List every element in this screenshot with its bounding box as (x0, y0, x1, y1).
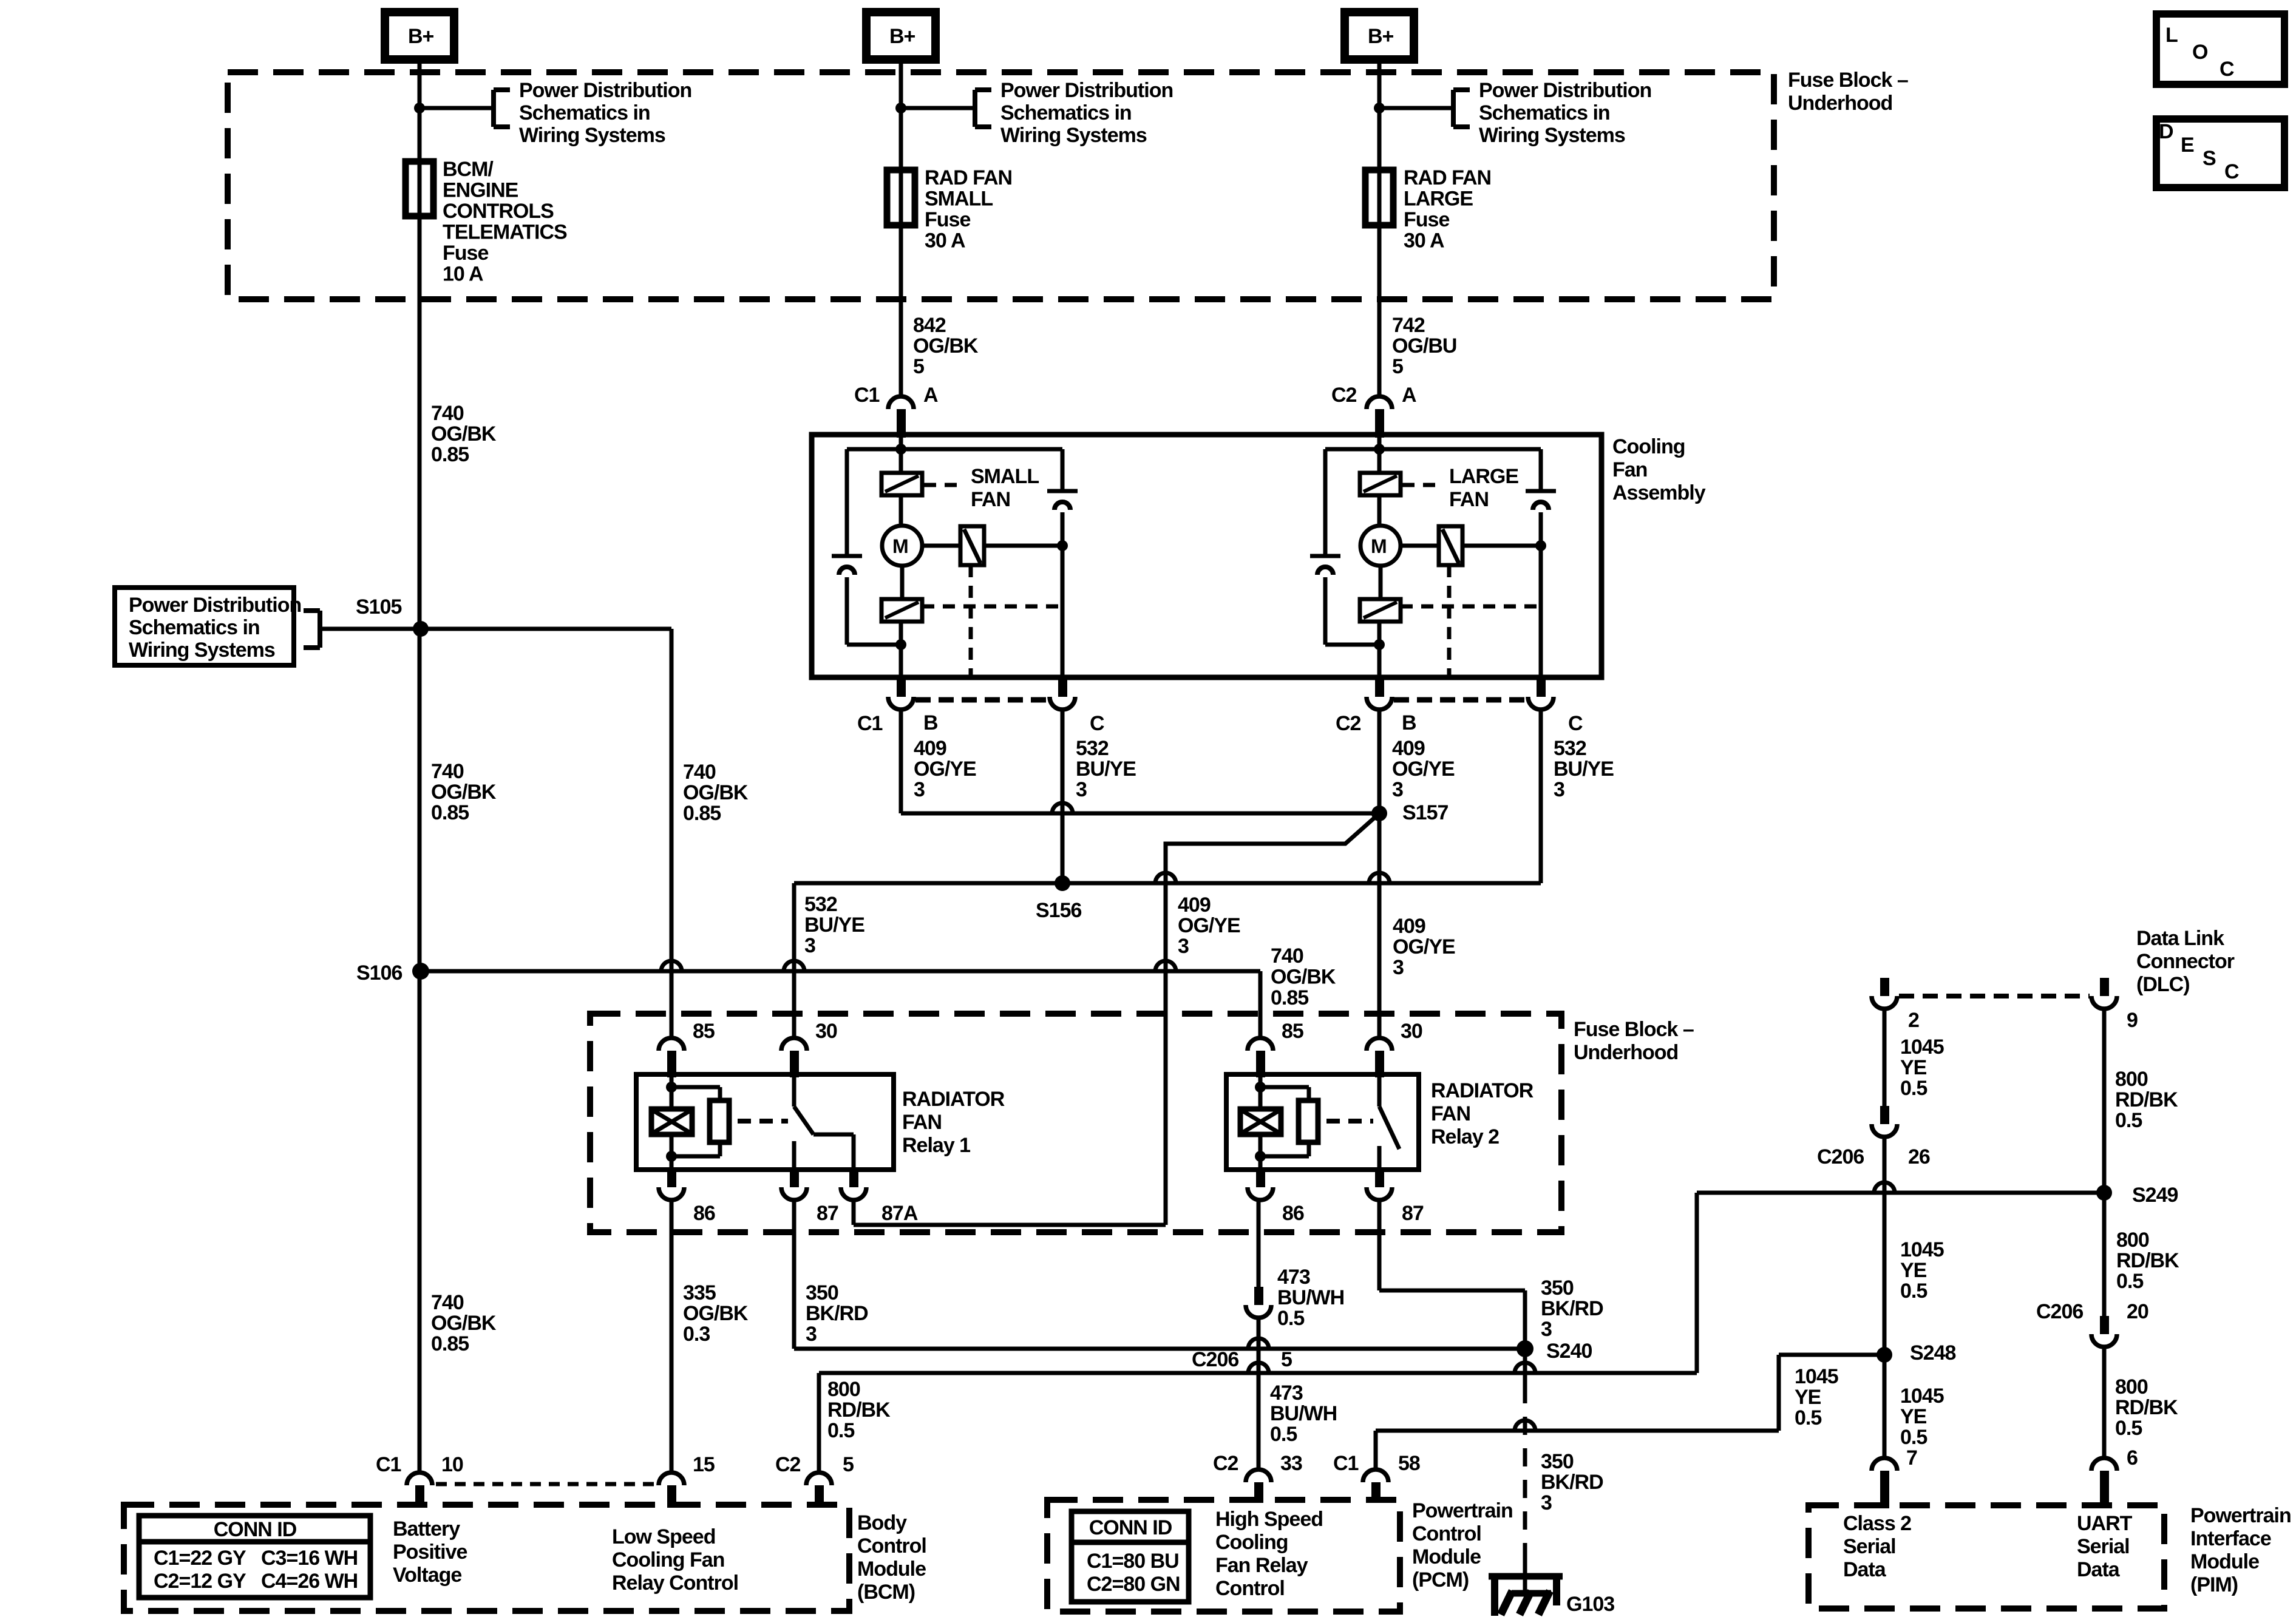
svg-text:Fuse Block –: Fuse Block – (1574, 1018, 1694, 1041)
svg-text:1045: 1045 (1900, 1036, 1944, 1059)
svg-text:S106: S106 (356, 961, 402, 985)
svg-text:C1: C1 (376, 1453, 401, 1476)
svg-text:OG/BK: OG/BK (913, 334, 979, 358)
svg-text:M: M (1371, 535, 1387, 557)
svg-text:B+: B+ (1368, 25, 1394, 48)
svg-text:UART: UART (2077, 1512, 2133, 1535)
svg-text:842: 842 (913, 314, 946, 337)
svg-text:M: M (892, 535, 908, 557)
svg-text:0.85: 0.85 (683, 802, 721, 825)
svg-text:CONN ID: CONN ID (1089, 1516, 1172, 1539)
svg-text:Connector: Connector (2136, 950, 2235, 973)
svg-text:OG/BK: OG/BK (1271, 966, 1336, 989)
svg-text:Fan Relay: Fan Relay (1215, 1554, 1308, 1577)
svg-text:0.5: 0.5 (2116, 1270, 2143, 1293)
svg-text:C2: C2 (775, 1453, 801, 1476)
svg-text:CONN ID: CONN ID (214, 1518, 297, 1541)
svg-text:C1: C1 (857, 712, 883, 735)
svg-text:RD/BK: RD/BK (2116, 1249, 2179, 1272)
svg-text:RAD FAN: RAD FAN (925, 166, 1012, 189)
svg-text:BU/YE: BU/YE (1554, 758, 1614, 781)
svg-text:409: 409 (1178, 893, 1211, 917)
svg-text:(PIM): (PIM) (2190, 1573, 2238, 1596)
svg-text:RD/BK: RD/BK (827, 1398, 891, 1422)
svg-text:3: 3 (914, 778, 925, 801)
svg-text:85: 85 (1282, 1020, 1303, 1043)
svg-text:BU/WH: BU/WH (1277, 1286, 1344, 1309)
svg-text:0.5: 0.5 (827, 1419, 854, 1442)
svg-text:740: 740 (1271, 944, 1303, 968)
svg-text:B: B (1402, 711, 1416, 734)
svg-text:742: 742 (1392, 314, 1425, 337)
svg-text:409: 409 (1392, 737, 1425, 760)
svg-text:C2=12 GY: C2=12 GY (154, 1570, 246, 1593)
svg-text:OG/BU: OG/BU (1392, 334, 1456, 358)
svg-text:FAN: FAN (1431, 1102, 1470, 1125)
svg-text:BK/RD: BK/RD (1541, 1471, 1603, 1494)
svg-text:85: 85 (693, 1020, 715, 1043)
svg-text:S105: S105 (356, 595, 401, 619)
svg-text:87: 87 (817, 1202, 838, 1225)
svg-text:OG/BK: OG/BK (431, 422, 497, 446)
svg-text:Data Link: Data Link (2136, 927, 2224, 950)
svg-text:Data: Data (2077, 1558, 2121, 1581)
svg-text:(BCM): (BCM) (857, 1581, 915, 1604)
svg-text:30 A: 30 A (1404, 229, 1444, 253)
svg-text:S240: S240 (1546, 1340, 1592, 1363)
svg-text:350: 350 (1541, 1450, 1574, 1473)
svg-text:9: 9 (2127, 1009, 2138, 1032)
svg-text:0.5: 0.5 (2115, 1417, 2142, 1440)
svg-text:RADIATOR: RADIATOR (902, 1088, 1005, 1111)
svg-text:Underhood: Underhood (1788, 92, 1892, 115)
svg-text:Wiring Systems: Wiring Systems (1000, 124, 1147, 147)
svg-text:3: 3 (1178, 935, 1189, 958)
svg-text:TELEMATICS: TELEMATICS (443, 221, 567, 244)
svg-text:RAD FAN: RAD FAN (1404, 166, 1491, 189)
svg-text:33: 33 (1280, 1452, 1302, 1475)
svg-text:0.5: 0.5 (2115, 1109, 2142, 1132)
svg-text:409: 409 (1393, 915, 1425, 938)
svg-text:C2=80 GN: C2=80 GN (1087, 1573, 1180, 1596)
svg-text:(DLC): (DLC) (2136, 973, 2190, 996)
svg-text:Assembly: Assembly (1612, 481, 1706, 504)
svg-text:Cooling: Cooling (1612, 435, 1685, 458)
svg-text:350: 350 (806, 1281, 838, 1304)
svg-text:10 A: 10 A (443, 263, 483, 286)
svg-text:BK/RD: BK/RD (1541, 1297, 1603, 1320)
svg-text:B+: B+ (889, 25, 915, 48)
svg-text:C1=22 GY: C1=22 GY (154, 1547, 246, 1570)
svg-text:S157: S157 (1402, 801, 1448, 824)
svg-text:800: 800 (2116, 1229, 2149, 1252)
svg-text:C2: C2 (1213, 1452, 1238, 1475)
svg-text:Control: Control (1412, 1522, 1481, 1545)
svg-text:BU/WH: BU/WH (1270, 1402, 1337, 1425)
svg-text:Underhood: Underhood (1574, 1041, 1678, 1064)
svg-text:3: 3 (804, 934, 815, 957)
svg-text:3: 3 (1554, 778, 1564, 801)
svg-text:FAN: FAN (971, 488, 1010, 511)
svg-text:350: 350 (1541, 1276, 1574, 1300)
svg-text:1045: 1045 (1795, 1365, 1838, 1388)
svg-text:C: C (1090, 712, 1104, 735)
svg-text:Fuse: Fuse (1404, 208, 1449, 231)
svg-text:Fuse Block –: Fuse Block – (1788, 69, 1908, 92)
svg-text:3: 3 (1076, 778, 1087, 801)
svg-text:1045: 1045 (1900, 1385, 1944, 1408)
svg-text:L: L (2165, 24, 2178, 47)
svg-text:Cooling: Cooling (1215, 1531, 1288, 1554)
svg-text:Class 2: Class 2 (1843, 1512, 1911, 1535)
svg-text:Wiring Systems: Wiring Systems (1479, 124, 1625, 147)
svg-text:0.5: 0.5 (1900, 1077, 1927, 1100)
svg-text:0.5: 0.5 (1900, 1426, 1927, 1449)
svg-text:1045: 1045 (1900, 1238, 1944, 1261)
svg-text:SMALL: SMALL (925, 188, 993, 211)
svg-text:C: C (2220, 58, 2234, 81)
svg-text:6: 6 (2127, 1446, 2138, 1470)
svg-text:Body: Body (857, 1511, 907, 1534)
svg-text:473: 473 (1270, 1381, 1303, 1405)
svg-text:Fuse: Fuse (443, 242, 488, 265)
svg-text:Battery: Battery (393, 1517, 460, 1541)
svg-text:5: 5 (1392, 355, 1403, 378)
svg-text:Wiring Systems: Wiring Systems (519, 124, 665, 147)
svg-text:Wiring Systems: Wiring Systems (129, 639, 275, 662)
svg-text:0.5: 0.5 (1900, 1280, 1927, 1303)
svg-text:BK/RD: BK/RD (806, 1302, 868, 1325)
svg-text:Positive: Positive (393, 1541, 467, 1564)
svg-text:3: 3 (806, 1323, 817, 1346)
svg-text:Cooling Fan: Cooling Fan (612, 1548, 724, 1571)
svg-text:S249: S249 (2132, 1184, 2178, 1207)
svg-text:Voltage: Voltage (393, 1564, 461, 1587)
svg-text:30: 30 (1401, 1020, 1422, 1043)
svg-text:58: 58 (1398, 1452, 1420, 1475)
svg-text:5: 5 (843, 1453, 854, 1476)
svg-text:C2: C2 (1331, 384, 1357, 407)
svg-text:Interface: Interface (2190, 1527, 2271, 1550)
svg-text:532: 532 (804, 893, 837, 916)
svg-text:OG/YE: OG/YE (1393, 935, 1455, 958)
svg-text:30: 30 (815, 1020, 837, 1043)
svg-text:FAN: FAN (902, 1111, 942, 1134)
svg-text:A: A (923, 384, 938, 407)
svg-text:0.5: 0.5 (1270, 1423, 1297, 1446)
svg-text:740: 740 (431, 1291, 464, 1314)
svg-text:2: 2 (1908, 1009, 1919, 1032)
svg-text:26: 26 (1908, 1145, 1930, 1168)
svg-text:(PCM): (PCM) (1412, 1568, 1469, 1592)
svg-text:0.85: 0.85 (1271, 986, 1308, 1009)
svg-text:C1: C1 (1333, 1452, 1359, 1475)
svg-text:Module: Module (1412, 1545, 1481, 1568)
svg-text:3: 3 (1541, 1318, 1552, 1341)
svg-text:3: 3 (1393, 956, 1404, 979)
svg-text:740: 740 (431, 402, 464, 425)
svg-text:Power Distribution: Power Distribution (519, 79, 691, 102)
svg-text:High Speed: High Speed (1215, 1508, 1323, 1531)
svg-text:800: 800 (827, 1378, 860, 1401)
svg-text:C1=80 BU: C1=80 BU (1087, 1550, 1179, 1573)
svg-text:0.3: 0.3 (683, 1323, 710, 1346)
svg-text:86: 86 (1282, 1202, 1304, 1225)
svg-text:C2: C2 (1336, 712, 1361, 735)
svg-text:OG/BK: OG/BK (431, 1312, 497, 1335)
svg-text:87: 87 (1402, 1202, 1424, 1225)
svg-text:OG/YE: OG/YE (914, 758, 976, 781)
svg-text:OG/BK: OG/BK (683, 1302, 749, 1325)
svg-text:S248: S248 (1910, 1341, 1955, 1364)
svg-text:0.85: 0.85 (431, 443, 469, 466)
svg-text:800: 800 (2115, 1068, 2148, 1091)
svg-text:Serial: Serial (1843, 1535, 1896, 1558)
svg-text:740: 740 (431, 760, 464, 783)
svg-text:86: 86 (693, 1202, 715, 1225)
svg-text:A: A (1402, 384, 1416, 407)
svg-text:ENGINE: ENGINE (443, 179, 518, 202)
svg-text:BCM/: BCM/ (443, 158, 494, 181)
svg-text:BU/YE: BU/YE (1076, 758, 1136, 781)
svg-text:473: 473 (1277, 1266, 1310, 1289)
svg-text:0.85: 0.85 (431, 801, 469, 824)
svg-text:0.5: 0.5 (1795, 1406, 1821, 1429)
svg-text:RD/BK: RD/BK (2115, 1396, 2178, 1419)
svg-text:30 A: 30 A (925, 229, 965, 253)
svg-text:Control: Control (1215, 1577, 1285, 1600)
svg-text:S156: S156 (1036, 899, 1081, 922)
svg-text:Schematics in: Schematics in (519, 101, 650, 124)
svg-text:Fan: Fan (1612, 458, 1647, 481)
svg-text:OG/BK: OG/BK (431, 781, 497, 804)
svg-text:C: C (1568, 712, 1583, 735)
svg-text:FAN: FAN (1449, 488, 1489, 511)
svg-text:LARGE: LARGE (1404, 188, 1473, 211)
svg-text:C206: C206 (1817, 1145, 1864, 1168)
svg-text:800: 800 (2115, 1375, 2148, 1398)
svg-text:OG/BK: OG/BK (683, 781, 749, 804)
svg-text:3: 3 (1541, 1491, 1552, 1514)
svg-text:Relay 1: Relay 1 (902, 1134, 970, 1157)
svg-text:D: D (2159, 120, 2173, 143)
svg-text:OG/YE: OG/YE (1178, 914, 1240, 937)
svg-text:5: 5 (1281, 1348, 1292, 1371)
svg-text:C1: C1 (854, 384, 880, 407)
svg-text:Relay 2: Relay 2 (1431, 1125, 1499, 1148)
svg-text:Powertrain: Powertrain (2190, 1504, 2291, 1527)
svg-text:Power Distribution: Power Distribution (129, 594, 301, 617)
svg-text:B+: B+ (408, 25, 434, 48)
svg-text:7: 7 (1906, 1446, 1917, 1470)
svg-text:3: 3 (1392, 778, 1403, 801)
svg-text:532: 532 (1076, 737, 1109, 760)
svg-text:0.5: 0.5 (1277, 1307, 1304, 1330)
svg-text:Powertrain: Powertrain (1412, 1499, 1513, 1522)
svg-text:G103: G103 (1566, 1593, 1614, 1616)
svg-text:BU/YE: BU/YE (804, 914, 864, 937)
svg-text:S: S (2203, 147, 2216, 170)
svg-text:Schematics in: Schematics in (129, 616, 260, 639)
svg-text:YE: YE (1900, 1056, 1927, 1079)
svg-text:CONTROLS: CONTROLS (443, 200, 554, 223)
svg-text:Relay Control: Relay Control (612, 1571, 738, 1595)
svg-text:C206: C206 (1192, 1348, 1238, 1371)
svg-text:RD/BK: RD/BK (2115, 1088, 2178, 1111)
svg-text:Power Distribution: Power Distribution (1000, 79, 1173, 102)
svg-text:532: 532 (1554, 737, 1586, 760)
svg-text:Control: Control (857, 1534, 926, 1558)
svg-text:Low Speed: Low Speed (612, 1525, 715, 1548)
svg-text:C4=26 WH: C4=26 WH (261, 1570, 358, 1593)
svg-text:87A: 87A (881, 1202, 918, 1225)
svg-text:Fuse: Fuse (925, 208, 970, 231)
svg-text:C: C (2224, 160, 2239, 183)
svg-text:YE: YE (1900, 1405, 1927, 1428)
svg-text:Power Distribution: Power Distribution (1479, 79, 1651, 102)
svg-text:E: E (2181, 134, 2194, 157)
svg-text:Serial: Serial (2077, 1535, 2130, 1558)
svg-text:YE: YE (1795, 1386, 1821, 1409)
svg-text:15: 15 (693, 1453, 715, 1476)
svg-text:Data: Data (1843, 1558, 1887, 1581)
svg-text:YE: YE (1900, 1259, 1927, 1282)
svg-text:Schematics in: Schematics in (1479, 101, 1610, 124)
svg-text:LARGE: LARGE (1449, 465, 1518, 488)
svg-text:0.85: 0.85 (431, 1332, 469, 1355)
svg-text:Module: Module (2190, 1550, 2259, 1573)
svg-text:RADIATOR: RADIATOR (1431, 1079, 1533, 1102)
svg-text:OG/YE: OG/YE (1392, 758, 1455, 781)
svg-text:Schematics in: Schematics in (1000, 101, 1132, 124)
svg-text:Module: Module (857, 1558, 926, 1581)
svg-text:409: 409 (914, 737, 946, 760)
svg-text:C3=16 WH: C3=16 WH (261, 1547, 358, 1570)
svg-text:20: 20 (2127, 1300, 2148, 1323)
svg-text:O: O (2192, 41, 2208, 64)
svg-text:335: 335 (683, 1281, 716, 1304)
svg-text:C206: C206 (2036, 1300, 2083, 1323)
svg-text:740: 740 (683, 761, 716, 784)
svg-text:SMALL: SMALL (971, 465, 1039, 488)
svg-text:5: 5 (913, 355, 924, 378)
svg-text:B: B (923, 711, 938, 734)
svg-text:10: 10 (441, 1453, 463, 1476)
